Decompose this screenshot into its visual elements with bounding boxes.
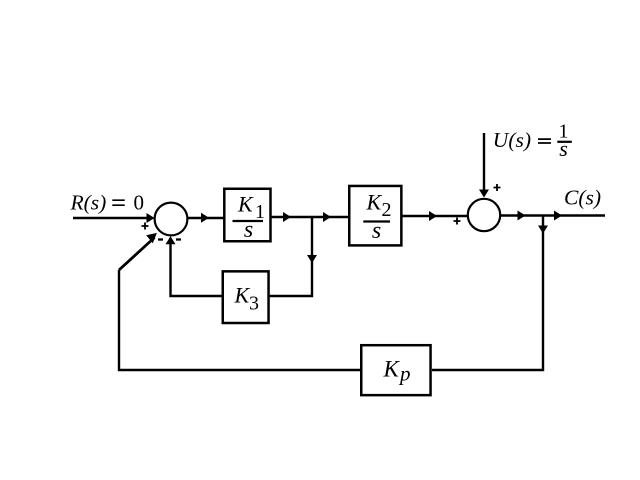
svg-text:K: K — [366, 189, 383, 214]
svg-text:K: K — [234, 282, 251, 307]
svg-text:C(s): C(s) — [564, 186, 601, 210]
svg-text:1: 1 — [255, 201, 265, 223]
svg-text:s: s — [372, 218, 381, 244]
svg-text:0: 0 — [134, 191, 145, 215]
svg-text:2: 2 — [382, 199, 392, 221]
svg-text:K: K — [237, 191, 254, 216]
svg-text:p: p — [398, 361, 411, 385]
svg-text:R(s): R(s) — [70, 190, 107, 214]
svg-text:s: s — [244, 217, 253, 243]
svg-text:U(s): U(s) — [493, 128, 531, 152]
svg-text:3: 3 — [249, 293, 259, 315]
svg-text:K: K — [383, 356, 401, 381]
svg-text:s: s — [559, 136, 568, 161]
